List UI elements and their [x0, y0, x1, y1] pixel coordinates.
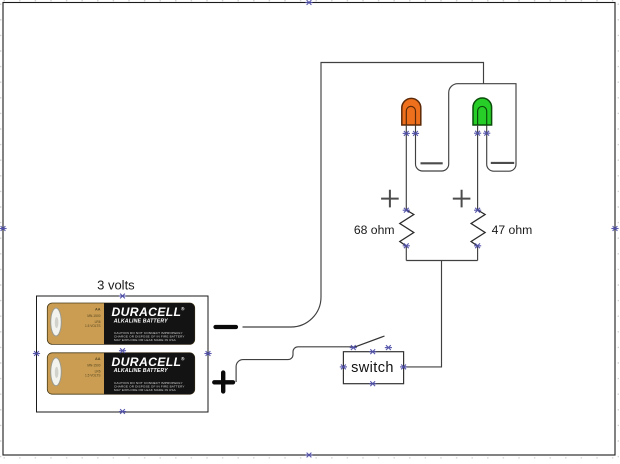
svg-text:MN-1500: MN-1500: [87, 364, 100, 368]
switch S1 box: [343, 352, 403, 384]
switch S1 lever: [353, 336, 384, 348]
resistor R1 68 ohm: [400, 210, 414, 246]
svg-text:AA: AA: [95, 357, 101, 361]
wire: LED D2 anode lead to resistor R2: [477, 125, 479, 210]
wire: R1 bottom lead: [405, 246, 407, 261]
svg-text:switch: switch: [351, 360, 394, 376]
svg-text:MN-1500: MN-1500: [87, 314, 100, 318]
handle: R1 top: [403, 208, 410, 213]
handle: battery box bottom mid: [119, 409, 126, 414]
battery pack box: [37, 296, 209, 412]
handle: switch top mid: [369, 349, 376, 354]
minus polarity mark near LED D2: [491, 162, 514, 164]
svg-text:68 ohm: 68 ohm: [354, 223, 395, 237]
battery minus terminal symbol: [216, 325, 237, 329]
handle: battery box top mid: [119, 294, 126, 299]
svg-text:3 volts: 3 volts: [97, 278, 135, 293]
wire: battery minus to top rail and down to cathode bus: [243, 63, 484, 328]
svg-text:ALKALINE BATTERY: ALKALINE BATTERY: [113, 318, 168, 324]
battery B2 (Duracell AA): [47, 353, 194, 394]
wire: R2 bottom lead: [477, 246, 479, 261]
handle: battery box left mid: [33, 351, 40, 356]
svg-text:MAY EXPLODE OR LEAK MADE IN U: MAY EXPLODE OR LEAK MADE IN USA: [114, 338, 177, 342]
handle: border top mid: [305, 0, 312, 5]
handle: R1 bottom: [403, 243, 410, 248]
battery plus terminal symbol: [214, 373, 233, 392]
handle: border right mid: [611, 226, 618, 231]
wire: LED D1 anode lead to resistor R1: [405, 125, 407, 210]
handle: R2 top: [474, 208, 481, 213]
handle: LED D1 cathode lead: [403, 131, 410, 136]
svg-text:MAY EXPLODE OR LEAK MADE IN U: MAY EXPLODE OR LEAK MADE IN USA: [114, 388, 177, 392]
handle: switch right mid: [400, 365, 407, 370]
handle: R2 bottom: [474, 243, 481, 248]
handle: LED D1 anode lead: [412, 131, 419, 136]
handle: border bottom mid: [305, 453, 312, 458]
handle: switch pivot: [350, 345, 357, 350]
resistor R2 47 ohm: [471, 210, 485, 246]
handle: LED D2 cathode lead: [474, 131, 481, 136]
wire: anode bus joining resistors and down to switch: [404, 261, 478, 367]
plus polarity mark near resistor R2: [453, 190, 471, 208]
LED D2 (green): [473, 98, 492, 125]
plus polarity mark near resistor R1: [381, 190, 399, 208]
handle: battery pack center: [119, 348, 126, 353]
svg-text:1.5 VOLTS: 1.5 VOLTS: [85, 324, 101, 328]
svg-text:ALKALINE BATTERY: ALKALINE BATTERY: [113, 368, 168, 374]
svg-text:1.5 VOLTS: 1.5 VOLTS: [85, 374, 101, 378]
minus polarity mark near LED D1: [421, 162, 443, 164]
svg-text:47 ohm: 47 ohm: [492, 223, 533, 237]
LED D1 (orange): [402, 98, 421, 125]
handle: battery box right mid: [204, 351, 211, 356]
handle: LED D2 anode lead: [483, 131, 490, 136]
handle: switch contact: [385, 345, 392, 350]
battery B1 (Duracell AA): [47, 303, 194, 344]
svg-text:AA: AA: [95, 307, 101, 311]
wire: cathode bus with loops from LED cathodes: [416, 84, 517, 172]
handle: border left mid: [0, 226, 7, 231]
svg-text:DURACELL: DURACELL: [112, 355, 182, 369]
svg-text:DURACELL: DURACELL: [112, 305, 182, 319]
handle: switch left mid: [340, 365, 347, 370]
handle: switch bottom mid: [369, 381, 376, 386]
wire: battery plus to switch: [236, 347, 353, 382]
